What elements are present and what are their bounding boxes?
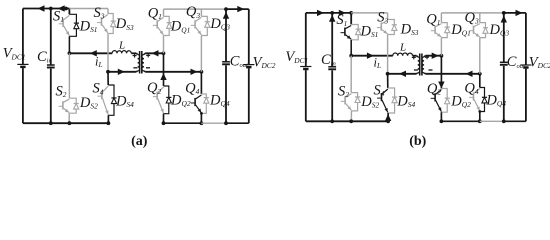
node Q4 bottom (b) (478, 119, 482, 123)
wire bottom rail Q4 to Cout (a) (201, 122, 226, 124)
wire bottom rail Q4 to Cout (b) (480, 120, 504, 122)
wire Q2 bottom stub (b) (440, 112, 442, 121)
wire S3 bottom stub (a) (107, 34, 109, 72)
diode DQ3 (b) (480, 23, 488, 38)
battery VDC1 (a) (17, 9, 28, 124)
battery VDC2 (a) (243, 9, 254, 123)
label S3 (b) (377, 10, 388, 26)
polarity + secondary (a) (146, 53, 150, 57)
svg-text:DQ3: DQ3 (489, 22, 510, 38)
polarity + primary (b) (412, 55, 416, 59)
diode DQ4 (b) (480, 88, 487, 112)
label VDC (b) (285, 49, 308, 65)
svg-text:Q1: Q1 (148, 5, 162, 21)
transformer core (b) (420, 54, 422, 76)
label VDC2 (a) (253, 54, 276, 70)
label S4 (a) (93, 81, 104, 97)
wire top rail to S3 (a) (69, 8, 108, 10)
label S3 (a) (94, 5, 105, 21)
wire bottom rail Cout to VDC2 (a) (226, 122, 249, 124)
wire top rail to S3 (b) (351, 12, 387, 14)
transistor S1 (a) (59, 15, 70, 35)
transformer secondary winding (b) (422, 56, 425, 74)
polarity - secondary (a) (146, 67, 150, 69)
label VDC2 (b) (529, 55, 550, 71)
svg-text:Q4: Q4 (464, 80, 478, 96)
node Cin bottom (a) (49, 121, 53, 125)
svg-text:Q4: Q4 (185, 80, 199, 96)
wire S1 to node A (a) (68, 36, 70, 53)
label iL (a) (95, 55, 103, 70)
transistor Q1 (a) (153, 17, 164, 35)
svg-text:S1: S1 (336, 12, 347, 28)
svg-text:VDC2: VDC2 (253, 54, 276, 70)
node B (a) (106, 70, 110, 74)
svg-text:VDC2: VDC2 (529, 55, 550, 71)
svg-text:Q3: Q3 (186, 4, 200, 20)
wire primary bottom (b) (388, 73, 417, 75)
wire inductor to transformer (a) (131, 52, 136, 54)
node S2 bottom (a) (68, 121, 72, 125)
label Q3 (a) (186, 4, 200, 20)
diode DS3 (b) (388, 20, 397, 35)
current arrow iL (b) (367, 53, 374, 59)
wire Q2 top stub (a) (163, 53, 165, 86)
svg-text:(b): (b) (409, 134, 426, 149)
wire Q3 bottom stub (b) (479, 38, 481, 74)
label DQ4 (b) (485, 93, 506, 109)
transistor Q2 (a) (153, 87, 164, 113)
svg-text:S2: S2 (56, 83, 67, 99)
diode DQ2 (b) (441, 89, 449, 113)
wire Q2 top stub (b) (440, 56, 442, 89)
svg-text:iL: iL (374, 56, 382, 71)
wire S1 top stub (b) (350, 13, 352, 25)
current arrow primary return (b) (399, 71, 406, 77)
current arrow into VDC2 (a) (237, 6, 244, 12)
label DQ1 (a) (170, 19, 191, 35)
wire S1 to node A (b) (350, 40, 352, 56)
polarity - secondary (b) (429, 69, 433, 71)
diode DQ1 (a) (164, 16, 172, 35)
current arrow secondary top (a) (152, 50, 159, 56)
wire S2 bottom stub (a) (68, 113, 70, 123)
transistor S4 (a) (98, 86, 109, 115)
wire bottom rail Q2 to Q4 (b) (441, 120, 479, 122)
wire S3 top stub (a) (107, 9, 109, 14)
label DS2 (b) (360, 94, 379, 110)
wire bottom rail Q2 to Q4 (a) (164, 122, 202, 124)
label iL (b) (374, 56, 382, 71)
transformer secondary winding (a) (142, 53, 145, 72)
current arrow through Q2 leg (a) (160, 73, 166, 80)
node Cout bottom (a) (224, 121, 228, 125)
node Q4 branch joint (a) (200, 112, 203, 115)
label Q2 (a) (147, 80, 161, 96)
node Q4 bottom (a) (200, 121, 204, 125)
svg-text:S3: S3 (377, 10, 388, 26)
wire bottom rail Cout to VDC2 (b) (504, 120, 526, 122)
svg-text:S4: S4 (374, 83, 385, 99)
label DS3 (a) (115, 16, 134, 32)
wire node A to inductor (b) (351, 55, 393, 57)
wire S4 top stub (a) (107, 72, 109, 85)
label Cout (b) (507, 54, 525, 70)
polarity - primary (b) (414, 69, 418, 71)
current arrow through Q2 leg (b) (438, 82, 444, 89)
svg-text:DS2: DS2 (79, 95, 98, 111)
current arrow into Cout node (b) (501, 16, 507, 23)
svg-text:S4: S4 (93, 81, 104, 97)
svg-text:Cout: Cout (507, 54, 525, 70)
current arrow from source (b) (317, 10, 324, 16)
svg-text:Cout: Cout (230, 54, 248, 70)
current arrow iL (a) (90, 50, 97, 56)
current arrow into source (a) (38, 5, 45, 11)
node Cout top (b) (502, 11, 506, 15)
transformer primary winding (b) (417, 56, 420, 74)
transistor Q4 (a) (191, 95, 202, 113)
label Q1 (a) (148, 5, 162, 21)
label DS1 (a) (79, 18, 98, 34)
svg-text:S2: S2 (338, 83, 349, 99)
diode DS1 (a) (69, 14, 79, 36)
diode DS2 (b) (351, 93, 360, 111)
current arrow into VDC2 (b) (516, 10, 523, 16)
diode DQ1 (b) (441, 23, 449, 38)
svg-text:DS4: DS4 (396, 93, 415, 109)
polarity + secondary (b) (425, 55, 429, 59)
wire Q3 top stub (a) (200, 9, 202, 16)
wire primary bottom (a) (108, 71, 136, 73)
node Cin bottom (b) (330, 119, 334, 123)
wire Q4 top stub (b) (479, 74, 481, 88)
node A (b) (349, 54, 353, 58)
node C (b) (440, 54, 444, 58)
wire Q1 bottom stub (b) (440, 38, 442, 56)
node Cin top (b) (330, 11, 334, 15)
wire inductor to transformer (b) (413, 55, 417, 57)
node A (a) (68, 51, 72, 55)
svg-text:DS3: DS3 (400, 21, 419, 37)
wire S4 top stub (b) (387, 74, 389, 88)
svg-text:(a): (a) (131, 134, 148, 149)
label DS2 (a) (79, 95, 98, 111)
node Q2 bottom (a) (162, 121, 166, 125)
transformer primary winding (a) (136, 53, 139, 72)
wire secondary bottom (a) (145, 71, 201, 73)
wire top rail right bridge (a) (164, 8, 227, 10)
label Q4 (b) (464, 80, 478, 96)
node D (b) (478, 72, 482, 76)
transistor Q1 (b) (431, 24, 442, 37)
current arrow primary return (a) (118, 69, 125, 75)
svg-text:DS4: DS4 (115, 93, 134, 109)
wire Q4 bottom stub (a) (200, 113, 202, 123)
diode DQ2 (a) (164, 86, 172, 114)
battery VDC (b) (300, 13, 311, 121)
label Cin (b) (321, 52, 337, 68)
wire Q1 top stub (b) (440, 13, 442, 23)
capacitor Cout (b) (500, 13, 508, 121)
svg-text:DQ1: DQ1 (170, 19, 191, 35)
label Cin (a) (37, 49, 53, 65)
caption (a) (131, 134, 148, 149)
label S2 (a) (56, 83, 67, 99)
wire node A to inductor (a) (69, 52, 112, 54)
wire secondary bottom (b) (425, 73, 480, 75)
svg-text:Q2: Q2 (147, 80, 161, 96)
diode DS1 (b) (351, 25, 361, 40)
label DS3 (b) (400, 21, 419, 37)
wire S1 top stub (a) (68, 9, 70, 15)
polarity + primary (a) (133, 54, 137, 58)
svg-text:S1: S1 (53, 9, 64, 25)
node Cout top (a) (224, 7, 228, 11)
wire secondary top (b) (425, 55, 441, 57)
current arrow out of Cin (b) (329, 15, 335, 22)
caption (b) (409, 134, 426, 149)
wire top rail right bridge (b) (441, 12, 503, 14)
label L (b) (399, 42, 406, 54)
label DQ2 (a) (170, 93, 191, 109)
transistor Q3 (a) (191, 17, 202, 35)
transistor S2 (a) (59, 99, 70, 112)
label DQ3 (b) (489, 22, 510, 38)
node S1 top (b) (349, 11, 353, 15)
wire S3 bottom stub (b) (387, 35, 389, 74)
node S4 bottom (b) (386, 119, 390, 123)
svg-text:L: L (118, 40, 125, 52)
inductor L (b) (393, 53, 413, 56)
label DQ4 (a) (209, 93, 230, 109)
label DQ3 (a) (209, 16, 230, 32)
label DS4 (b) (396, 93, 415, 109)
current arrow toward S1 (b) (339, 10, 346, 16)
wire S3 top stub (b) (387, 13, 389, 20)
diode DQ4 (a) (201, 94, 209, 113)
node Q4 branch joint (b) (478, 110, 481, 113)
svg-text:Q1: Q1 (426, 11, 440, 27)
current arrow secondary top (b) (432, 53, 439, 59)
capacitor Cin (a) (47, 9, 55, 124)
label S2 (b) (338, 83, 349, 99)
transistor S4 (b) (377, 89, 388, 112)
diode DS4 (a) (108, 85, 116, 115)
wire Cout node to VDC2 (a) (226, 8, 249, 10)
label Cout (a) (230, 54, 248, 70)
inductor L (a) (112, 51, 131, 54)
wire S4 bottom stub (a) (107, 115, 109, 123)
node Cin top (a) (49, 7, 53, 11)
transistor Q3 (b) (469, 24, 480, 37)
label Q3 (b) (465, 10, 479, 26)
label DS4 (a) (115, 93, 134, 109)
wire bottom rail left bridge (a) (23, 122, 109, 124)
diode DS2 (a) (69, 98, 79, 113)
node S4 bottom (a) (107, 121, 111, 125)
label VDC1 (a) (3, 46, 26, 62)
diode DQ3 (a) (201, 16, 210, 35)
label DQ1 (b) (450, 22, 471, 38)
wire Q4 bottom stub (b) (479, 112, 481, 122)
label S1 (b) (336, 12, 347, 28)
svg-text:Cin: Cin (321, 52, 337, 68)
wire S2 top stub (a) (68, 53, 70, 98)
node B (b) (386, 72, 390, 76)
svg-text:DS1: DS1 (360, 24, 379, 40)
transformer core (a) (140, 51, 142, 74)
label S1 (a) (53, 9, 64, 25)
label S4 (b) (374, 83, 385, 99)
wire Q3 bottom stub (a) (200, 36, 202, 72)
svg-text:DS3: DS3 (115, 16, 134, 32)
wire S2 top stub (b) (350, 56, 352, 93)
diode DS4 (b) (388, 88, 397, 113)
wire Q3 top stub (b) (479, 13, 481, 23)
label Q1 (b) (426, 11, 440, 27)
wire secondary top (a) (145, 52, 163, 54)
wire Q2 bottom stub (a) (163, 114, 165, 124)
transistor S1 (b) (341, 26, 352, 40)
current arrow into Cout node (a) (223, 12, 229, 19)
wire top rail left bridge (a) (23, 8, 70, 10)
current arrow secondary bottom (a) (191, 69, 198, 75)
wire S2 bottom stub (b) (350, 111, 352, 121)
wire bottom rail left bridge (b) (306, 120, 388, 122)
label Q2 (b) (427, 81, 441, 97)
label Q4 (a) (185, 80, 199, 96)
current arrow secondary bottom (b) (466, 71, 473, 77)
node S2 bottom (b) (349, 119, 353, 123)
diode DS3 (a) (108, 14, 116, 34)
label DS1 (b) (360, 24, 379, 40)
transistor Q2 (b) (431, 90, 442, 112)
wire S4 bottom stub (b) (385, 113, 391, 121)
label DQ2 (b) (450, 93, 471, 109)
transistor S3 (a) (97, 15, 108, 33)
node C (a) (162, 51, 166, 55)
capacitor Cin (b) (328, 13, 336, 121)
wire Q1 bottom stub (a) (163, 36, 165, 54)
svg-text:L: L (399, 42, 406, 54)
capacitor Cout (a) (222, 9, 230, 123)
node S1 top (a) (64, 7, 68, 11)
svg-text:VDC1: VDC1 (285, 49, 308, 65)
wire Q4 top stub (a) (200, 72, 202, 94)
polarity - primary (a) (133, 67, 137, 69)
battery VDC2 (b) (520, 13, 531, 121)
transistor Q4 (b) (469, 89, 480, 111)
node Cout bottom (b) (502, 119, 506, 123)
wire Q1 top stub (a) (163, 9, 165, 16)
wire top rail left bridge (b) (306, 12, 351, 14)
wire Cout node to VDC2 (b) (504, 12, 526, 14)
svg-text:S3: S3 (94, 5, 105, 21)
transistor S2 (b) (341, 94, 352, 111)
transistor S3 (b) (377, 21, 388, 34)
current arrow toward source (a) (58, 5, 65, 11)
svg-text:iL: iL (95, 55, 103, 70)
label L (a) (118, 40, 125, 52)
node Q2 bottom (b) (440, 119, 444, 123)
node D (a) (200, 70, 204, 74)
